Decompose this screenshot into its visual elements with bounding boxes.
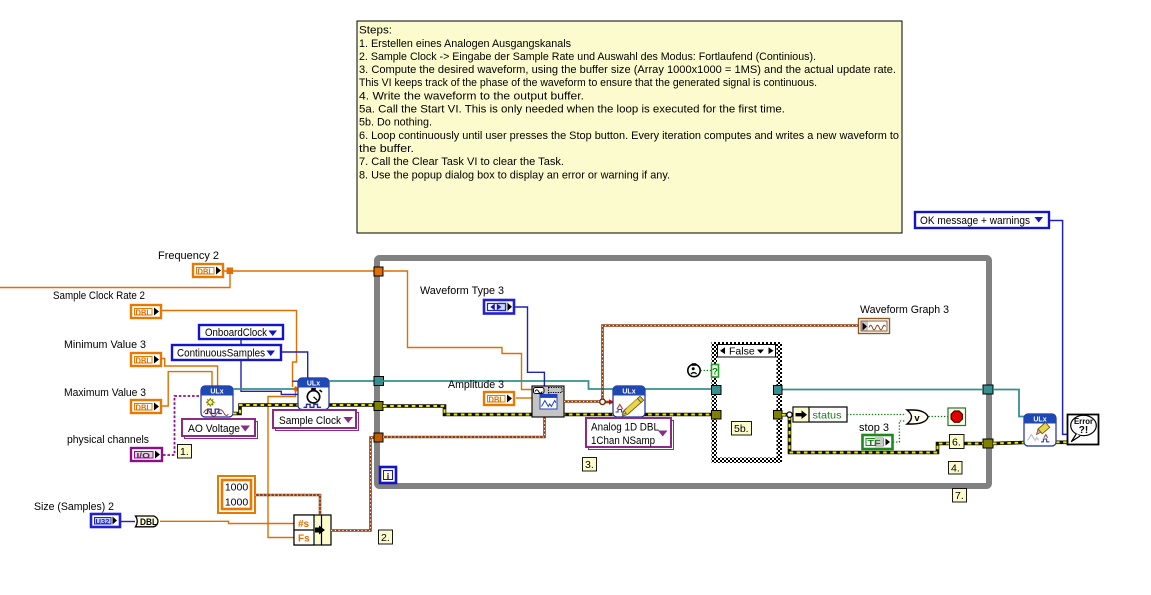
svg-text:5b.: 5b. bbox=[734, 423, 749, 435]
wire task loop to ULx Clear (teal) bbox=[993, 390, 1024, 417]
VI error dialog (Error ?!) bbox=[1068, 415, 1099, 445]
terminal Waveform Graph 3 (indicator) bbox=[859, 304, 950, 334]
tunnel task (teal) on loop left bbox=[374, 377, 384, 386]
svg-text:Fs: Fs bbox=[298, 534, 310, 545]
svg-text:6. Loop continuously until use: 6. Loop continuously until user presses … bbox=[359, 130, 899, 142]
terminal Minimum Value 3 (DBL control) bbox=[64, 339, 161, 366]
comment box Steps bbox=[357, 21, 902, 233]
terminal stop 3 (TF control) bbox=[859, 422, 893, 449]
svg-text:Frequency 2: Frequency 2 bbox=[158, 250, 219, 262]
svg-text:Minimum Value 3: Minimum Value 3 bbox=[64, 339, 146, 351]
ring AO Voltage bbox=[182, 419, 258, 439]
ULx Write VI bbox=[613, 386, 645, 417]
svg-text:1. Erstellen eines Analogen Au: 1. Erstellen eines Analogen Ausgangskana… bbox=[359, 38, 571, 50]
svg-text:7.: 7. bbox=[955, 490, 964, 502]
wire Minimum Value 3 to ULx AO Voltage bbox=[160, 359, 218, 388]
svg-text:Waveform Graph 3: Waveform Graph 3 bbox=[860, 304, 949, 316]
svg-text:Analog 1D DBL: Analog 1D DBL bbox=[591, 422, 659, 434]
wire task Sample Clock to loop (teal) bbox=[329, 380, 376, 382]
tunnel error (olive) on case left bbox=[712, 411, 722, 420]
wire Maximum Value 3 to ULx AO Voltage bbox=[160, 372, 212, 406]
node First Call? bbox=[688, 363, 700, 376]
wire status to Or (green dotted) bbox=[847, 414, 906, 416]
wire error case to unbundle and loop tunnel (yellow-black dashed) bbox=[782, 415, 983, 453]
label 4. bbox=[949, 462, 963, 475]
svg-text:?!: ?! bbox=[1079, 425, 1088, 436]
terminal Amplitude 3 (DBL control) bbox=[448, 379, 514, 405]
terminal Size (Samples) 2 (U32 control) bbox=[34, 501, 120, 527]
VI compute waveform bbox=[532, 386, 564, 417]
svg-text:Maximum Value 3: Maximum Value 3 bbox=[64, 387, 146, 399]
node bundle #s Fs (waveform components) bbox=[294, 515, 331, 545]
wire error inside loop (yellow-black dashed) bbox=[383, 406, 774, 415]
svg-text:v: v bbox=[914, 413, 920, 424]
svg-text:OnboardClock: OnboardClock bbox=[205, 327, 267, 339]
ring OK message + warnings bbox=[915, 212, 1049, 228]
svg-text:5a. Call the Start VI. This is: 5a. Call the Start VI. This is only need… bbox=[359, 104, 785, 116]
tunnel task (teal) on loop right bbox=[983, 385, 993, 394]
wire OnboardClock to ULx Sample Clock bbox=[241, 339, 298, 394]
terminal Waveform Type 3 (enum control) bbox=[420, 285, 514, 314]
wire Frequency 2 branch to left edge bbox=[0, 272, 230, 288]
wire blue stub at Sample Clock left bbox=[292, 380, 298, 382]
terminal case selector ? bbox=[712, 365, 719, 378]
node To DBL conversion bbox=[136, 516, 158, 527]
label 1. bbox=[178, 445, 192, 459]
svg-text:1000: 1000 bbox=[225, 497, 249, 509]
svg-text:AO Voltage: AO Voltage bbox=[188, 423, 240, 435]
svg-text:Sample Clock Rate 2: Sample Clock Rate 2 bbox=[53, 290, 145, 302]
wire ContinuousSamples to ULx Sample Clock top bbox=[281, 352, 308, 379]
wire stop 3 to Or (green dotted) bbox=[893, 421, 906, 442]
svg-text:TF: TF bbox=[868, 438, 881, 448]
label 3. bbox=[583, 458, 597, 472]
node unbundle by name status bbox=[793, 407, 847, 422]
svg-text:1.: 1. bbox=[180, 446, 189, 458]
ULx Sample Clock VI bbox=[298, 378, 329, 410]
wire task inside loop (teal) bbox=[383, 381, 983, 390]
svg-text:6.: 6. bbox=[952, 437, 961, 449]
svg-text:DBL: DBL bbox=[136, 403, 152, 413]
tunnel task (teal) on case right bbox=[774, 386, 783, 395]
terminal loop iteration i bbox=[380, 467, 396, 483]
node coercion dot (red) at ULx Write input bbox=[609, 399, 614, 404]
wire Or to loop condition (green dotted) bbox=[929, 416, 949, 418]
svg-text:3. Compute the desired wavefor: 3. Compute the desired waveform, using t… bbox=[359, 64, 896, 76]
wire cluster rust tunnel to waveform VI bottom (brown dotted) bbox=[383, 416, 545, 437]
svg-text:?: ? bbox=[712, 367, 718, 378]
svg-text:i: i bbox=[387, 472, 390, 482]
node wire junction (circle) on error wire bbox=[787, 412, 792, 417]
svg-text:7. Call the Clear Task VI to c: 7. Call the Clear Task VI to clear the T… bbox=[359, 156, 564, 168]
tunnel error (olive) on loop left bbox=[374, 402, 383, 411]
case structure False bbox=[712, 342, 783, 463]
svg-text:Size (Samples) 2: Size (Samples) 2 bbox=[34, 501, 114, 513]
terminal Frequency 2 (DBL control) bbox=[158, 250, 223, 277]
svg-text:Steps:: Steps: bbox=[359, 25, 392, 37]
ULx AO Voltage VI bbox=[201, 386, 233, 417]
wire Waveform Type 3 to waveform VI (blue) bbox=[515, 307, 544, 386]
svg-text:ULx: ULx bbox=[307, 381, 320, 388]
label 2. bbox=[379, 530, 393, 544]
svg-text:ULx: ULx bbox=[1033, 417, 1046, 424]
label 7. bbox=[953, 489, 967, 503]
svg-text:#s: #s bbox=[298, 519, 310, 530]
svg-text:Amplitude 3: Amplitude 3 bbox=[448, 379, 504, 391]
svg-text:DBL: DBL bbox=[198, 267, 214, 277]
wire array to bundle (brown dotted cluster) bbox=[255, 495, 320, 515]
ULx Clear VI bbox=[1024, 414, 1056, 446]
svg-text:Waveform Type 3: Waveform Type 3 bbox=[420, 285, 504, 297]
wire error AO Voltage to Sample Clock to loop (yellow-black dashed) bbox=[233, 405, 378, 414]
wire Size to bundle #s (orange) bbox=[160, 521, 294, 523]
svg-text:5b. Do nothing.: 5b. Do nothing. bbox=[359, 117, 432, 129]
svg-text:1Chan NSamp: 1Chan NSamp bbox=[591, 435, 655, 447]
wire ring OK message to error dialog (blue) bbox=[1049, 221, 1067, 435]
wire Frequency 2 to loop tunnel bbox=[224, 270, 374, 272]
wire task AO Voltage to Sample Clock (teal) bbox=[233, 388, 294, 390]
svg-text:Sample Clock: Sample Clock bbox=[279, 415, 341, 427]
wire Sample Clock Rate 2 to ULx Sample Clock and Fs bbox=[162, 311, 297, 538]
svg-text:This VI keeps track of the ph: This VI keeps track of the phase of the … bbox=[359, 77, 817, 89]
constant OnboardClock (ring) bbox=[199, 325, 283, 339]
svg-text:2. Sample Clock -> Eingabe der: 2. Sample Clock -> Eingabe der Sample Ra… bbox=[359, 51, 816, 63]
tunnel error (olive) on loop right bbox=[983, 439, 993, 448]
tunnel error (olive) on case right bbox=[774, 411, 783, 420]
terminal Sample Clock Rate 2 (DBL control) bbox=[53, 290, 161, 318]
node Or gate bbox=[907, 410, 928, 424]
constant array 1000x1000 bbox=[218, 476, 255, 513]
label 5b. bbox=[732, 422, 752, 436]
wire physical channels to ULx AO Voltage (I/O purple) bbox=[163, 396, 201, 455]
wire First Call to case selector (green dotted) bbox=[701, 370, 712, 372]
svg-text:ULx: ULx bbox=[210, 389, 223, 396]
svg-text:DBL: DBL bbox=[136, 308, 152, 318]
svg-text:ContinuousSamples: ContinuousSamples bbox=[177, 348, 265, 360]
wire bundle output to loop tunnel (brown dotted cluster) bbox=[331, 438, 376, 531]
svg-text:I/O: I/O bbox=[137, 451, 151, 460]
terminal Maximum Value 3 (DBL control) bbox=[64, 387, 161, 413]
svg-text:U32: U32 bbox=[96, 517, 110, 526]
wire Amplitude 3 to waveform VI (orange) bbox=[516, 397, 532, 399]
svg-text:ULx: ULx bbox=[622, 389, 635, 396]
svg-text:2.: 2. bbox=[381, 532, 390, 544]
svg-text:8. Use the popup dialog box to: 8. Use the popup dialog box to display a… bbox=[359, 169, 670, 181]
svg-text:1000: 1000 bbox=[225, 482, 249, 494]
ring Sample Clock bbox=[273, 410, 359, 431]
svg-text:3.: 3. bbox=[585, 459, 594, 471]
svg-text:DBL: DBL bbox=[140, 517, 157, 527]
label 6. bbox=[950, 435, 965, 449]
svg-text:False: False bbox=[729, 346, 755, 358]
svg-text:physical channels: physical channels bbox=[67, 434, 149, 446]
case selector label False bbox=[718, 345, 776, 358]
svg-text:stop 3: stop 3 bbox=[859, 422, 889, 434]
wire Frequency inside loop to waveform VI bbox=[383, 271, 532, 390]
tunnel cluster (rust) on loop left bbox=[374, 433, 383, 442]
svg-text:DBL: DBL bbox=[489, 395, 505, 405]
tunnel task (teal) on case left bbox=[712, 386, 722, 395]
svg-text:4. Write the waveform to the o: 4. Write the waveform to the output buff… bbox=[359, 90, 584, 102]
node coercion dot (orange diamond) at ULx Sample Clock rate input bbox=[293, 386, 299, 392]
node junction Frequency 2 bbox=[227, 268, 234, 275]
tunnel Frequency (orange) on loop left bbox=[374, 267, 383, 276]
wire error loop to ULx Clear to error dialog (yellow-black dashed) bbox=[993, 442, 1067, 443]
node wire junction (circle) on cluster wire bbox=[600, 399, 606, 405]
svg-text:the buffer.: the buffer. bbox=[359, 143, 414, 155]
svg-text:OK message + warnings: OK message + warnings bbox=[920, 215, 1030, 227]
svg-text:DBL: DBL bbox=[136, 356, 152, 366]
ring Analog 1D DBL 1Chan NSamp bbox=[586, 418, 674, 450]
svg-text:status: status bbox=[813, 410, 842, 422]
wire Size (Samples) 2 U32 to DBL conversion (blue) bbox=[121, 521, 135, 523]
constant ContinuousSamples (ring) bbox=[172, 345, 281, 360]
terminal physical channels (I/O control) bbox=[67, 434, 162, 461]
wire cluster waveform VI to graph and write (brown dotted) bbox=[564, 326, 858, 403]
svg-text:4.: 4. bbox=[951, 463, 960, 475]
while loop border bbox=[377, 258, 989, 486]
terminal loop condition (stop sign) bbox=[948, 408, 966, 426]
